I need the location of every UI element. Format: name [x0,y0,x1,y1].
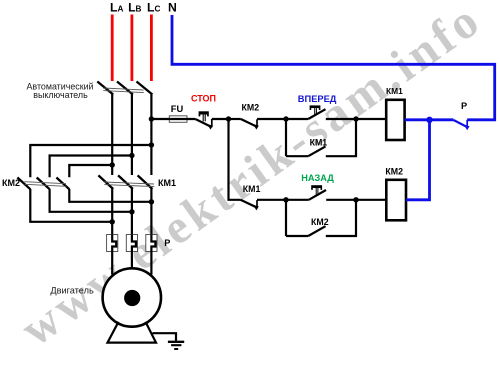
auxiliary contact KM1 NC blade [241,200,257,208]
neutral wire N (blue) [172,15,495,120]
wire coil KM1 to node C1 (blue) [405,118,430,121]
svg-text:СТОП: СТОП [191,94,216,104]
contactor KM1 linkage bar [104,182,154,184]
thermal relay P heater C [146,235,157,252]
junction lower phase C [149,199,154,204]
wire node A1 to forward button [286,118,308,120]
wire KM2 NO to node B2 [326,200,356,236]
thermal relay P heater A [107,235,118,252]
node after stop [226,116,231,121]
svg-text:НАЗАД: НАЗАД [301,173,334,183]
thermal relay contact P blade (blue) [454,120,468,127]
contactor KM1 pole B blade [118,175,133,189]
fuse FU [169,116,187,123]
wire KM1 NC to node A2 [257,199,286,201]
wire KM2 pole3 to phase C lower [69,189,151,202]
wire forward to node B1 [326,118,356,120]
pushbutton BACKWARD actuator [311,185,322,188]
pushbutton STOP fixed post [211,119,213,127]
junction lower phase B [129,209,134,214]
wire stop to node [212,118,229,120]
phase line LB (red) [130,15,133,82]
node C1 (blue) [426,117,432,123]
wire motor to ground [153,333,177,341]
junction on phase B [129,153,134,158]
motor body [103,268,161,326]
circuit breaker pole B blade [117,82,133,95]
svg-text:КМ1: КМ1 [158,178,176,188]
phase line LC (red) [150,15,153,82]
svg-text:выключатель: выключатель [33,90,88,100]
wire phase C column [150,94,152,176]
pushbutton FORWARD actuator [310,105,321,108]
wire phase B lower column [131,189,133,235]
auxiliary contact KM2 NC fixed post [256,119,258,127]
phase line LA (red) [111,15,114,82]
contactor KM2 pole2 blade [37,178,50,190]
auxiliary contact KM1 NO blade [308,146,325,156]
wire KM2 pole1 to phase A lower [30,189,112,222]
node B1 [353,116,358,121]
pushbutton STOP blade arrow [207,124,213,129]
wire heater A to motor [111,252,113,275]
wire KM2 pole2 to phase B lower [50,189,132,212]
svg-text:FU: FU [171,104,184,114]
svg-text:Р: Р [461,101,467,111]
svg-text:КМ2: КМ2 [242,103,260,113]
wire node A2 to backward button [286,199,309,201]
thermal relay contact P fixed post (blue) [466,120,468,129]
pushbutton FORWARD blade [308,109,325,119]
junction lower phase A [110,219,115,224]
wire node B1 to coil KM1 [356,118,386,120]
wire backward to node B2 [326,199,356,201]
motor shaft dot [124,290,140,306]
wire to KM2 NO contact [286,235,308,237]
thermal relay P heater B [126,235,137,252]
svg-text:ВПЕРЕД: ВПЕРЕД [298,94,337,104]
wire node A2 down [285,200,287,236]
circuit breaker pole A blade [97,82,113,95]
thermal relay contact P blade arrow (blue) [464,125,470,130]
svg-text:Р: Р [164,238,170,248]
circuit breaker pole C blade [137,82,153,95]
junction on phase A [110,162,115,167]
wire phase A lower column [111,189,113,235]
wire node after stop down to rung 2 [229,119,241,200]
pushbutton STOP actuator [199,111,209,114]
wire heater C to motor [150,252,152,275]
node control tap on phase C [149,116,154,121]
wire heater B to motor [131,252,133,268]
wire node A1 down [285,119,287,156]
contactor KM2 pole1 blade [17,178,30,190]
auxiliary contact KM2 NC blade arrow [253,124,259,129]
pushbutton STOP blade [195,119,211,127]
wire node to KM2 NC contact [229,118,241,120]
contactor KM2 linkage bar [25,182,67,184]
auxiliary contact KM2 NC blade [241,119,257,127]
wire KM1 NO to node B1 [326,119,356,156]
svg-text:КМ1: КМ1 [243,184,261,194]
wire node B2 to coil KM2 [356,199,386,201]
pushbutton BACKWARD blade [309,190,326,200]
svg-text:КМ2: КМ2 [311,217,329,227]
motor mount base [108,322,157,343]
ground [168,341,184,343]
wire KM2 NC to node A1 [257,118,286,120]
wire to KM1 NO contact [286,155,308,157]
node A2 [283,197,288,202]
contactor KM1 pole C blade [138,175,153,189]
wire phase C lower column [150,189,152,235]
wire phase C tap to stop button [151,118,195,120]
auxiliary contact KM2 NO blade [308,226,325,236]
wire KM2 tap A [69,165,112,177]
circuit breaker linkage bar [103,88,144,90]
wire coil KM2 to node C1 (blue) [406,120,430,200]
junction on phase C [149,142,154,147]
contactor KM1 pole A blade [98,175,113,189]
svg-text:КМ2: КМ2 [385,167,403,177]
svg-text:N: N [168,1,177,15]
auxiliary contact KM1 NC fixed post [256,200,258,208]
svg-text:КМ1: КМ1 [386,86,403,96]
node A1 [283,116,288,121]
coil KM1 [386,100,404,140]
wire KM2 tap C [30,145,151,177]
wire node C1 to contact P (blue) [430,118,454,121]
svg-text:Двигатель: Двигатель [50,286,94,296]
auxiliary contact KM1 NC blade arrow [253,205,259,210]
wire KM2 tap B [50,156,132,178]
wire phase B column [131,94,133,176]
coil KM2 [386,180,406,221]
svg-text:КМ2: КМ2 [2,178,20,188]
contactor KM2 pole3 blade [56,178,69,190]
wire phase A column [111,94,113,176]
node B2 [353,197,358,202]
